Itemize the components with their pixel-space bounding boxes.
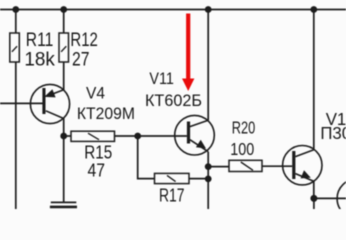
wire: R20 to V14 base xyxy=(262,165,292,167)
node: junction dot R12/bus xyxy=(60,6,67,13)
node: junction dot R15/R17/V11 base xyxy=(134,133,141,140)
wire: node stub down to bottom edge xyxy=(313,198,315,209)
wire: top supply bus xyxy=(0,9,346,11)
wire: V11 collector up to bus xyxy=(207,10,209,121)
wire: R11 bottom lead to lower rail xyxy=(15,62,17,209)
transistor (partial, right edge) xyxy=(337,179,346,218)
wire: node to R20 xyxy=(208,166,229,168)
node: junction dot V4 collector / R15 xyxy=(60,133,67,140)
resistor R12 body xyxy=(59,33,69,62)
node: junction dot V14 collector/bus xyxy=(310,6,317,13)
wire: R11 top lead xyxy=(15,10,17,34)
svg-text:R20: R20 xyxy=(232,118,256,138)
svg-text:П302: П302 xyxy=(320,123,346,143)
resistor R17 body xyxy=(155,173,190,183)
capacitor C (to lower rail) xyxy=(50,202,77,207)
svg-text:R11: R11 xyxy=(26,30,53,51)
node: junction dot V11 emitter / R20 xyxy=(205,163,212,170)
wire: R15 to node xyxy=(115,135,138,137)
resistor R20 body xyxy=(229,160,262,171)
svg-text:27: 27 xyxy=(72,50,90,71)
resistor R15 body xyxy=(71,131,115,141)
wire: V14 emitter down to node xyxy=(313,181,315,198)
svg-text:18k: 18k xyxy=(24,50,55,71)
svg-text:V11: V11 xyxy=(149,69,174,88)
wire: V4 base wire from left edge xyxy=(0,102,43,104)
node: junction dot V11 collector/bus xyxy=(205,6,212,13)
svg-text:КТ209М: КТ209М xyxy=(77,104,135,123)
wire: R17 to emitter node xyxy=(189,178,208,180)
wire: node right to next stage xyxy=(314,197,346,199)
svg-text:47: 47 xyxy=(88,160,106,181)
transistor V4 (PNP KT209M) xyxy=(30,84,69,123)
svg-text:КТ602Б: КТ602Б xyxy=(145,91,202,110)
annotation: red arrow pointing at V11 xyxy=(182,14,194,92)
wire: V11 emitter down to bottom edge xyxy=(207,152,209,209)
svg-text:V4: V4 xyxy=(86,83,105,102)
svg-text:R17: R17 xyxy=(159,185,185,206)
wire: node to V11 base xyxy=(138,135,187,137)
transistor V14 (NPN P302) xyxy=(283,146,322,185)
transistor V11 (NPN KT602B) xyxy=(175,115,215,155)
wire: V4 collector lead down to node, and on to capacitor xyxy=(63,119,65,203)
wire: V14 collector up to bus xyxy=(313,10,315,150)
node: junction dot V14 emitter xyxy=(310,195,317,202)
svg-text:R12: R12 xyxy=(70,30,98,51)
svg-text:100: 100 xyxy=(230,139,254,159)
resistor R11 body xyxy=(10,33,19,62)
node: junction dot R11/bus xyxy=(12,6,19,13)
node: junction dot V11 emitter / R17 xyxy=(205,176,212,183)
wire: node down and right to R17 xyxy=(138,136,155,179)
wire: R12 bottom lead to V4 emitter xyxy=(63,62,65,90)
wire: R12 top lead xyxy=(63,10,65,34)
wire: node to R15 xyxy=(64,135,71,137)
